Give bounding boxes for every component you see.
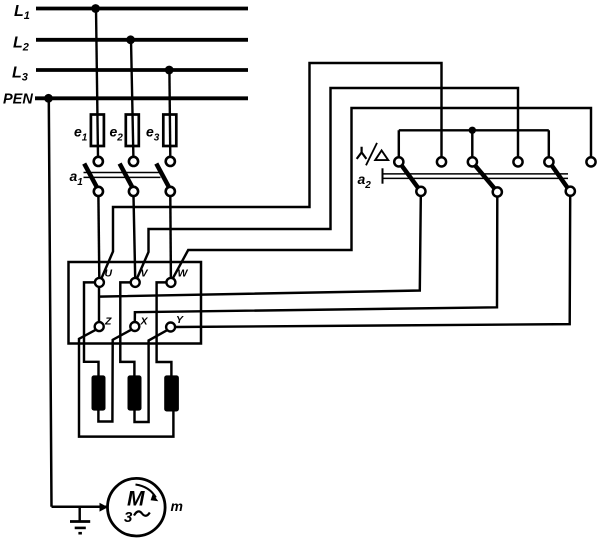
svg-text:X: X — [140, 316, 149, 328]
svg-text:Z: Z — [104, 316, 112, 328]
svg-text:M: M — [127, 488, 145, 511]
svg-text:m: m — [171, 498, 183, 514]
svg-text:W: W — [178, 268, 189, 280]
svg-text:a1: a1 — [70, 168, 84, 188]
svg-text:a2: a2 — [358, 171, 372, 191]
svg-text:L3: L3 — [12, 65, 28, 84]
svg-text:U: U — [105, 268, 113, 280]
svg-text:Y: Y — [176, 314, 184, 326]
svg-text:V: V — [141, 268, 149, 280]
svg-text:PEN: PEN — [3, 92, 33, 108]
svg-text:L2: L2 — [13, 35, 29, 54]
svg-text:e3: e3 — [146, 124, 160, 144]
svg-text:e1: e1 — [74, 124, 88, 144]
svg-text:e2: e2 — [110, 124, 124, 144]
svg-text:L1: L1 — [14, 3, 30, 22]
svg-text:3: 3 — [124, 509, 133, 526]
